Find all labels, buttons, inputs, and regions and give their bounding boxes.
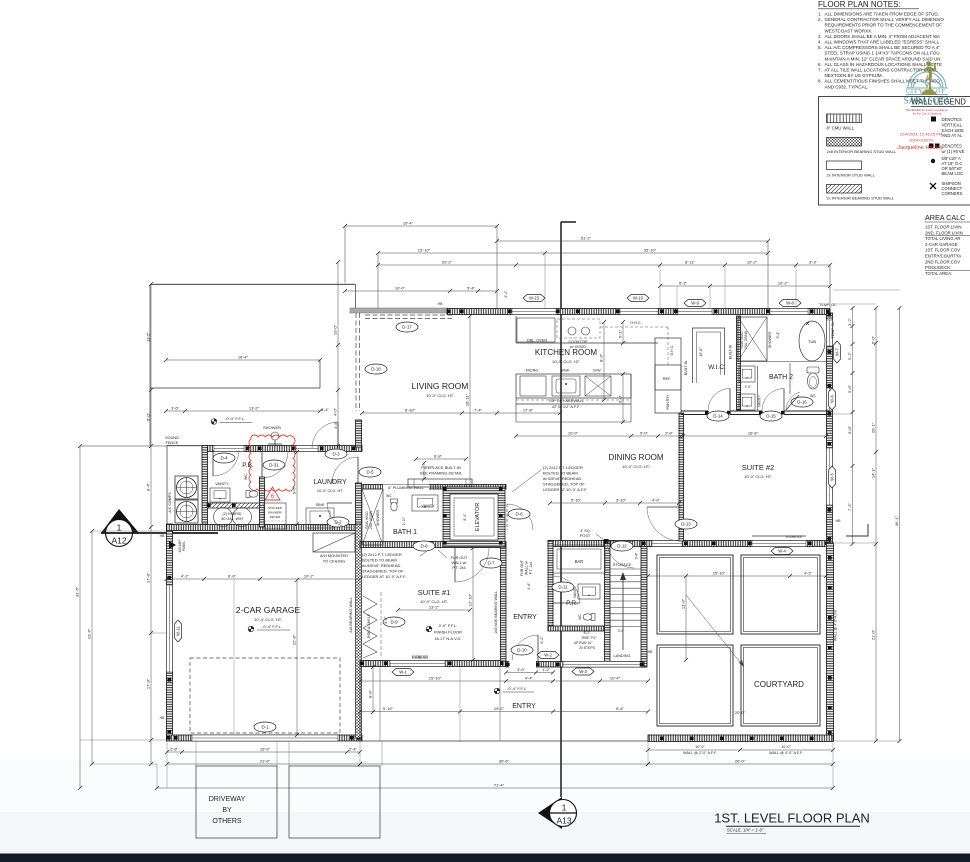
svg-text:A/H MOUNTED: A/H MOUNTED [320, 553, 348, 558]
svg-text:P.T. 2x4: P.T. 2x4 [452, 566, 465, 570]
legend 8in CMU wall symbol [827, 114, 862, 123]
kitchen counter top [516, 342, 658, 344]
top dimension chain 15-10 35-10 [378, 252, 768, 254]
svg-text:2024-010079: 2024-010079 [909, 138, 933, 143]
suite2 hose bib bracket [846, 524, 868, 536]
svg-text:DRYER: DRYER [270, 515, 281, 519]
svg-text:FUR OUT: FUR OUT [451, 556, 469, 560]
svg-text:TOP OF KNEEWALL: TOP OF KNEEWALL [548, 399, 584, 403]
dimension extension lines right [833, 303, 876, 305]
svg-text:10'-0" CLG. HT.: 10'-0" CLG. HT. [426, 393, 454, 398]
svg-text:5'-4": 5'-4" [467, 286, 476, 291]
suite1 bottom wall [360, 661, 506, 667]
svg-text:30'-6": 30'-6" [499, 759, 510, 764]
door tag D-17 [396, 322, 418, 332]
statue of david silhouette [921, 61, 937, 95]
svg-text:3'-0": 3'-0" [517, 667, 526, 672]
west wing dim row 3-6 13-2 [166, 410, 320, 412]
svg-text:ELEVATOR: ELEVATOR [475, 503, 481, 531]
svg-text:6'-0": 6'-0" [871, 335, 876, 344]
door tag D-10 [512, 635, 538, 661]
svg-text:A/C COMPS.: A/C COMPS. [168, 491, 172, 512]
courtyard planter 1 [657, 555, 733, 634]
pb wc [246, 491, 258, 498]
svg-text:W-8: W-8 [786, 301, 794, 306]
wic builtins [693, 328, 725, 383]
svg-text:W-4: W-4 [778, 549, 786, 554]
svg-text:SOUND: SOUND [165, 436, 179, 440]
svg-text:2x8 BEARING WALL: 2x8 BEARING WALL [349, 597, 353, 633]
west wing left wall [202, 446, 208, 525]
right wall window w5 egress [827, 448, 833, 505]
laundry dim 9-6 [296, 452, 298, 524]
svg-text:10'-0": 10'-0" [695, 745, 705, 749]
svg-text:SHOWER: SHOWER [263, 425, 281, 430]
svg-text:4'-2": 4'-2" [181, 574, 190, 579]
dimension extension lines top [344, 226, 346, 284]
svg-text:20'-0": 20'-0" [735, 759, 746, 764]
bath2 vanities [739, 366, 755, 382]
svg-text:POOL/DECK:: POOL/DECK: [925, 265, 951, 270]
svg-text:2'-10": 2'-10" [402, 516, 406, 525]
right exterior wall [827, 313, 833, 543]
door tag D-8 [413, 541, 435, 551]
svg-text:WC: WC [578, 614, 582, 620]
svg-text:71'-4": 71'-4" [494, 783, 505, 788]
svg-text:POST: POST [580, 534, 591, 538]
left dimension line 23-4 [91, 531, 93, 764]
svg-text:3'-2": 3'-2" [847, 317, 852, 326]
window tag W-3 [572, 668, 594, 675]
svg-text:12'-10": 12'-10" [468, 593, 473, 606]
svg-text:DINING ROOM: DINING ROOM [608, 453, 663, 462]
svg-text:PANTRY: PANTRY [666, 394, 670, 410]
svg-text:21'-0": 21'-0" [260, 759, 271, 764]
svg-text:WALL @ 2'-0" A.F.F.: WALL @ 2'-0" A.F.F. [683, 751, 717, 755]
svg-text:D-14: D-14 [713, 414, 723, 419]
window tag W-9 [684, 300, 706, 307]
svg-text:16'-4": 16'-4" [238, 355, 249, 360]
door tag D-15 [760, 411, 782, 421]
svg-text:2x8 INTERIOR BEARING STUD WALL: 2x8 INTERIOR BEARING STUD WALL [827, 149, 897, 154]
svg-text:BAR: BAR [575, 559, 584, 564]
svg-text:8" CMU WALL: 8" CMU WALL [827, 126, 855, 131]
door tag D-9 [383, 617, 405, 627]
svg-text:D-8: D-8 [420, 544, 428, 549]
svg-text:8'-2": 8'-2" [584, 631, 592, 635]
garage bottom wall [167, 735, 363, 741]
svg-text:REQUIREMENTS PRIOR TO THE COMM: REQUIREMENTS PRIOR TO THE COMMENCEMENT O… [825, 23, 943, 28]
svg-text:PANEL: PANEL [182, 541, 186, 551]
svg-text:4'-0": 4'-0" [652, 498, 661, 503]
svg-text:ALL DIMENSIONS ARE TAKEN FROM: ALL DIMENSIONS ARE TAKEN FROM EDGE OF ST… [825, 12, 939, 17]
svg-text:2.: 2. [818, 17, 822, 22]
svg-text:5'-0": 5'-0" [847, 384, 852, 393]
suite2 dim 16-8 [683, 435, 826, 437]
svg-text:W-9: W-9 [691, 301, 699, 306]
top dimension chain 10-0 5-4 [345, 290, 497, 292]
svg-text:W-5: W-5 [830, 473, 835, 481]
top exterior wall [350, 308, 447, 313]
svg-text:20'-1": 20'-1" [871, 422, 876, 433]
svg-text:80 GAL. W/H: 80 GAL. W/H [221, 517, 243, 521]
svg-text:2x INTERIOR BEARING STUD WALL: 2x INTERIOR BEARING STUD WALL [827, 196, 895, 201]
bath1 wc [391, 499, 398, 511]
svg-text:8'-3": 8'-3" [599, 353, 604, 362]
suite1 ffl [426, 626, 432, 632]
svg-text:20'-2": 20'-2" [442, 260, 453, 265]
garage door dashed [190, 658, 340, 733]
door tag D-2 [327, 517, 349, 527]
svg-text:OTHERS: OTHERS [212, 818, 242, 825]
svg-text:2'-8": 2'-8" [170, 747, 179, 752]
west wing top wall [202, 446, 362, 452]
svg-text:2x INTERIOR STUD WALL: 2x INTERIOR STUD WALL [827, 173, 876, 178]
stairs [610, 568, 641, 570]
svg-text:8'-0": 8'-0" [384, 616, 388, 624]
svg-text:1.: 1. [818, 12, 822, 17]
window tag W-11 [175, 620, 182, 642]
stacked washer dryer [264, 503, 286, 529]
svg-text:STORAGE: STORAGE [613, 563, 632, 567]
svg-text:3'-4": 3'-4" [635, 552, 639, 560]
svg-text:STAGGERED, TOP OF: STAGGERED, TOP OF [362, 569, 404, 574]
entry south wall [506, 662, 644, 668]
living dim 18-11 [469, 316, 471, 488]
garage dim 22-8 [296, 580, 298, 735]
svg-text:BUILT-IN: BUILT-IN [729, 344, 733, 359]
living room slider dashed D-18 [355, 313, 357, 411]
svg-text:13'-0": 13'-0" [681, 598, 686, 609]
svg-text:D-5: D-5 [366, 470, 374, 475]
kitchen cooktop [568, 327, 576, 335]
svg-text:VERTICAL: VERTICAL [942, 122, 963, 127]
svg-text:ALL WINDOWS THAT ARE LABELED ": ALL WINDOWS THAT ARE LABELED "EGRESS" SH… [825, 40, 940, 45]
svg-text:6'-2": 6'-2" [679, 281, 688, 286]
svg-text:W-11: W-11 [176, 626, 181, 636]
entry porch lines [359, 667, 361, 741]
left dimension line 31-6 [79, 446, 81, 788]
svg-text:9'-6": 9'-6" [292, 485, 297, 494]
svg-text:TEMP. GL: TEMP. GL [831, 321, 835, 338]
lanai dim 16-4 [166, 359, 320, 361]
top dimension chain 19-4 [345, 225, 497, 227]
window tag W-1 [392, 669, 414, 676]
svg-text:4'-6": 4'-6" [334, 421, 338, 429]
bath2 suite2 divider wall [681, 410, 708, 412]
svg-text:15'-10": 15'-10" [713, 571, 726, 576]
bath2 wc [807, 367, 819, 373]
svg-text:13'-2": 13'-2" [249, 406, 260, 411]
svg-text:LEDGER AT 10'-0" A.F.F.: LEDGER AT 10'-0" A.F.F. [362, 574, 406, 579]
svg-text:6'-0": 6'-0" [228, 574, 237, 579]
svg-text:1ST. LEVEL FLOOR PLAN: 1ST. LEVEL FLOOR PLAN [714, 811, 870, 826]
svg-text:1: 1 [562, 803, 567, 813]
ac compressors [175, 476, 198, 499]
svg-text:W-3: W-3 [579, 669, 587, 674]
svg-text:AT 34 1/2" A.F.F.: AT 34 1/2" A.F.F. [552, 405, 580, 409]
revision cloud D-31 [249, 435, 295, 491]
bottom dims garage row [167, 751, 360, 753]
svg-text:CITY: CITY [906, 89, 924, 95]
door tag D-12 [611, 541, 633, 551]
svg-text:8.: 8. [818, 79, 822, 84]
svg-text:W-6: W-6 [830, 395, 835, 403]
bottom page band [0, 760, 970, 860]
svg-text:2-CAR GARAGE:: 2-CAR GARAGE: [925, 242, 959, 247]
svg-text:10'-8": 10'-8" [699, 347, 703, 357]
svg-text:D-13: D-13 [681, 522, 691, 527]
svg-text:D-7: D-7 [487, 561, 495, 566]
svg-text:D-1: D-1 [261, 725, 269, 730]
svg-text:6.: 6. [818, 62, 822, 67]
svg-text:4'-2": 4'-2" [804, 571, 813, 576]
svg-text:HB: HB [836, 519, 842, 523]
svg-text:W-23: W-23 [529, 296, 540, 301]
svg-text:22'-8": 22'-8" [292, 634, 297, 645]
top wall window W-10 [620, 309, 658, 315]
svg-text:FENCE: FENCE [166, 441, 179, 445]
pr and stairs top wall [548, 541, 681, 547]
svg-text:-0'-4" F.F.L.: -0'-4" F.F.L. [225, 416, 245, 421]
svg-text:5'-10": 5'-10" [383, 706, 394, 711]
svg-text:SHOWER: SHOWER [768, 332, 772, 349]
top wall window W-23 [512, 309, 556, 315]
svg-text:17'-8": 17'-8" [523, 408, 534, 413]
courtyard right wall [827, 543, 834, 741]
svg-text:12/4/2024, 12:46:15 PM: 12/4/2024, 12:46:15 PM [900, 132, 943, 137]
sound fence lines [167, 445, 202, 447]
pantry column [655, 338, 681, 413]
bar counter [553, 545, 605, 573]
svg-text:2-CAR GARAGE: 2-CAR GARAGE [236, 605, 301, 615]
svg-text:FUR OUT: FUR OUT [520, 559, 524, 576]
svg-text:16'-8": 16'-8" [748, 431, 759, 436]
svg-text:WALL @ 4'-0" A.F.F.: WALL @ 4'-0" A.F.F. [834, 609, 838, 641]
svg-text:STEEL STRAP USING 1 1/4"x3" TA: STEEL STRAP USING 1 1/4"x3" TAPCONS ON A… [825, 51, 940, 56]
garage dim row [167, 578, 361, 580]
svg-text:MICRO: MICRO [526, 369, 539, 373]
svg-text:2SU. DRAIN: 2SU. DRAIN [369, 510, 373, 529]
courtyard left wall [641, 546, 647, 667]
bottom dims 21-0 30-6 20-0 [167, 763, 360, 765]
svg-text:W-7: W-7 [835, 348, 840, 356]
wall legend box [819, 97, 970, 206]
svg-text:COOKTOP: COOKTOP [569, 340, 588, 344]
svg-text:5'-4": 5'-4" [776, 331, 780, 339]
svg-text:BATH 1: BATH 1 [393, 529, 417, 536]
lanai slab outline [150, 284, 355, 286]
svg-text:4.: 4. [818, 40, 822, 45]
svg-text:2'-4": 2'-4" [349, 747, 358, 752]
svg-text:D-17: D-17 [402, 325, 412, 330]
svg-text:9'-0": 9'-0" [618, 394, 623, 403]
window tag W-2 [537, 652, 559, 659]
svg-text:A13: A13 [556, 816, 571, 826]
hybrid water heaters [214, 508, 233, 527]
svg-text:14'-1": 14'-1" [871, 467, 876, 478]
legend 2x interior bearing stud wall symbol [827, 185, 862, 194]
svg-text:O.H.C.: O.H.C. [670, 345, 674, 356]
svg-text:8'-10": 8'-10" [405, 408, 416, 413]
svg-text:WC: WC [810, 394, 816, 398]
svg-text:EACH SIDE: EACH SIDE [942, 128, 965, 133]
svg-text:FIREPLACE BUILT-IN: FIREPLACE BUILT-IN [421, 465, 461, 470]
svg-text:46'-1": 46'-1" [894, 515, 899, 526]
svg-text:DBL. OVEN: DBL. OVEN [527, 339, 548, 343]
svg-text:DENOTES: DENOTES [942, 117, 962, 122]
svg-text:WALL @ 4'-0" A.F.F.: WALL @ 4'-0" A.F.F. [769, 751, 803, 755]
svg-text:EGRESS: EGRESS [412, 655, 428, 659]
courtyard planter 4 [741, 645, 820, 726]
svg-text:W.I.C.: W.I.C. [708, 364, 726, 371]
pb laundry divider wall [260, 477, 265, 527]
svg-text:D-15: D-15 [766, 414, 776, 419]
fireplace built-in [408, 479, 472, 487]
door tag D-13 [647, 507, 681, 541]
ffl marker west [211, 419, 217, 425]
svg-text:ALL A/C COMPRESSORS SHALL BE S: ALL A/C COMPRESSORS SHALL BE SECURED TO … [825, 45, 941, 50]
suite1 top wall [360, 542, 506, 548]
window tag W-10 [627, 295, 649, 302]
svg-text:2ND FLOOR COV: 2ND FLOOR COV [925, 259, 960, 264]
kitchen dim verticals [603, 322, 605, 400]
hall wall at laundry east [356, 420, 362, 447]
elevator [443, 487, 505, 547]
svg-text:D-3: D-3 [332, 452, 340, 457]
pb bottom wall [207, 503, 264, 508]
svg-text:P.R.: P.R. [566, 600, 578, 607]
bottom dims wall aff labels [648, 749, 833, 751]
svg-text:TO CEILING: TO CEILING [323, 559, 346, 564]
svg-text:10'-4": 10'-4" [610, 676, 621, 681]
svg-text:KITCHEN ROOM: KITCHEN ROOM [535, 348, 598, 357]
svg-text:AREA CALC: AREA CALC [925, 213, 965, 222]
driveway rects [196, 766, 277, 838]
svg-text:10'-0": 10'-0" [395, 286, 406, 291]
suite1 closet [363, 596, 377, 658]
top dimension chain 51-2 [497, 240, 768, 242]
svg-text:GENERAL CONTRACTOR SHALL VERIF: GENERAL CONTRACTOR SHALL VERIFY ALL DIME… [825, 17, 945, 22]
svg-text:A12: A12 [111, 536, 126, 546]
svg-text:LANDING: LANDING [614, 654, 631, 658]
section cut line horizontal A12 [101, 532, 218, 534]
right wall window w6 [827, 388, 833, 410]
bath2 shower [738, 317, 767, 361]
door tag D-18 [365, 364, 387, 374]
pb vanity [210, 488, 230, 502]
svg-text:D-16: D-16 [797, 400, 807, 405]
courtyard planter 2 [741, 555, 820, 634]
svg-text:17'-8": 17'-8" [146, 572, 151, 583]
svg-text:VANITY: VANITY [421, 504, 435, 508]
legend 2x interior stud wall symbol [827, 161, 862, 170]
revision triangle 6 [265, 487, 280, 500]
pr bottom wall [548, 626, 610, 631]
svg-text:21'-0": 21'-0" [871, 629, 876, 640]
svg-text:6" PLUMBING WALL: 6" PLUMBING WALL [388, 486, 424, 490]
svg-text:AND AT AL: AND AT AL [942, 133, 963, 138]
svg-text:DENOTES: DENOTES [942, 144, 962, 149]
bottom dark bar [0, 854, 970, 862]
kitchen dim 10-0 5-0 2-0 [516, 435, 681, 437]
svg-text:2ND. FLOOR LIVIN: 2ND. FLOOR LIVIN [925, 230, 963, 235]
svg-text:SUITE #1: SUITE #1 [418, 588, 451, 597]
bath1 plumbing wall [362, 485, 506, 490]
city of sarasota stamp [904, 61, 951, 105]
dining dim row [550, 502, 679, 504]
svg-text:ENTRY: ENTRY [513, 614, 537, 621]
svg-text:TEMP. GL: TEMP. GL [819, 303, 836, 307]
svg-text:16'-0": 16'-0" [260, 747, 271, 752]
svg-text:4' SQ: 4' SQ [580, 529, 589, 533]
door tag D-3 [325, 449, 347, 459]
svg-text:NEXTGEN BY US GYPSUM.: NEXTGEN BY US GYPSUM. [825, 73, 883, 78]
svg-text:6'-2": 6'-2" [540, 636, 544, 644]
svg-text:10'-2": 10'-2" [778, 281, 789, 286]
suite1 dim 13-2 [398, 609, 470, 611]
garage top wall [167, 525, 361, 531]
window tag W-7 [834, 341, 841, 363]
svg-text:(2) 2x12 P.T. LEDGER: (2) 2x12 P.T. LEDGER [543, 465, 583, 470]
door tag D-5 [359, 467, 381, 477]
lanai right edge [355, 284, 357, 308]
svg-text:WALL w/: WALL w/ [525, 561, 529, 575]
door tag D-6 [507, 504, 533, 530]
svg-text:w/ 5/8"x6" REDHEAD: w/ 5/8"x6" REDHEAD [543, 476, 582, 481]
svg-text:P.T. 2x4: P.T. 2x4 [529, 562, 533, 575]
pr wc [583, 614, 595, 621]
svg-text:0'-0" F.F.L.: 0'-0" F.F.L. [439, 623, 458, 628]
svg-text:35'-10": 35'-10" [644, 248, 657, 253]
svg-text:SARASOTA: SARASOTA [904, 96, 951, 106]
svg-text:HB: HB [160, 716, 165, 720]
svg-text:2x8 NON BEARING WALL: 2x8 NON BEARING WALL [494, 591, 498, 634]
svg-text:19'-4": 19'-4" [403, 221, 414, 226]
svg-text:D-18: D-18 [371, 367, 381, 372]
svg-text:BEAM LOC: BEAM LOC [942, 171, 964, 176]
svg-text:20'-0": 20'-0" [735, 710, 746, 715]
left dimension line 11-5 6-0 8-4 17-8 17-8 [150, 284, 152, 764]
pr left wall [548, 541, 553, 631]
svg-text:-0'-4" F.F.L.: -0'-4" F.F.L. [262, 624, 282, 629]
courtyard bottom wall [648, 735, 833, 742]
svg-text:SINK: SINK [316, 503, 325, 507]
svg-text:8'-0": 8'-0" [368, 689, 373, 698]
svg-text:3'-0": 3'-0" [745, 385, 753, 389]
svg-text:4'-0": 4'-0" [333, 407, 338, 416]
garage left wall [167, 524, 173, 738]
svg-text:BOLTED TO BEAM: BOLTED TO BEAM [362, 558, 397, 563]
top dimension chain 20-2 8-11 10-2 3-3 [378, 264, 830, 266]
right dimension line chain2 [875, 308, 877, 741]
bottom dim 71-4 [157, 787, 833, 789]
svg-text:31'-6": 31'-6" [75, 586, 80, 597]
svg-text:ALL GLASS IN HAZARDOUS LOCATIO: ALL GLASS IN HAZARDOUS LOCATIONS SHALL B… [825, 62, 942, 67]
courtyard planter 3 [657, 645, 733, 726]
svg-text:WESTCOAST WORXX.: WESTCOAST WORXX. [825, 28, 873, 33]
window tag W-6 [829, 388, 836, 410]
svg-text:W-1: W-1 [399, 670, 407, 675]
door tag D-4 [213, 450, 239, 476]
svg-text:9'-0": 9'-0" [847, 425, 852, 434]
svg-text:ALL DOORS SHALL BE A MIN. 4" F: ALL DOORS SHALL BE A MIN. 4" FROM ADJACE… [825, 34, 941, 39]
svg-text:10'-4" CLG. HT.: 10'-4" CLG. HT. [254, 617, 282, 622]
ah closet box [313, 533, 355, 552]
svg-text:10'-0" CLG. HT.: 10'-0" CLG. HT. [744, 474, 772, 479]
svg-text:SHOWER: SHOWER [376, 510, 380, 527]
svg-text:Jacqueline Hadley: Jacqueline Hadley [897, 145, 943, 151]
